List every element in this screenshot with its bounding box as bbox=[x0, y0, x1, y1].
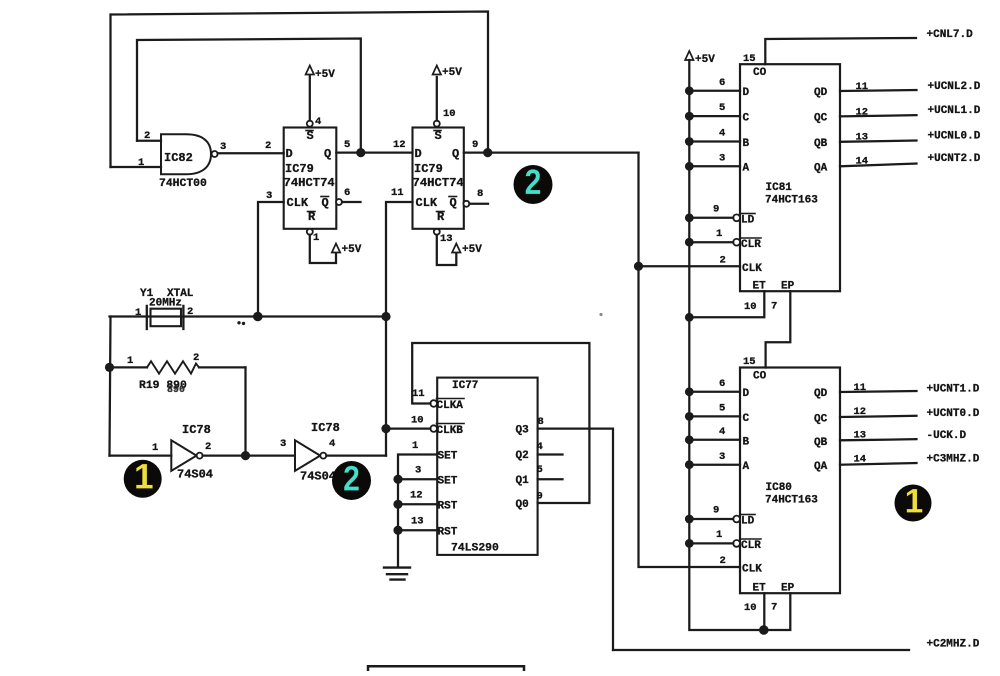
svg-text:3: 3 bbox=[280, 438, 286, 450]
bubble FF1 Qbar bbox=[336, 199, 342, 205]
label +UCNL1.D bbox=[928, 105, 981, 117]
wire IC81 QD output bbox=[840, 90, 917, 91]
svg-text:14: 14 bbox=[856, 156, 869, 168]
svg-text:11: 11 bbox=[391, 187, 404, 199]
svg-text:IC78: IC78 bbox=[182, 423, 211, 437]
svg-text:IC79: IC79 bbox=[285, 162, 314, 176]
pin 15 of IC81 bbox=[743, 53, 756, 65]
svg-text:Q: Q bbox=[324, 147, 331, 161]
label SET lower bbox=[438, 476, 458, 488]
pin 15 of IC80 bbox=[743, 356, 756, 368]
pin 12 of IC81 bbox=[856, 107, 869, 119]
svg-text:QB: QB bbox=[814, 138, 828, 150]
label Y1 bbox=[140, 288, 154, 300]
svg-text:QD: QD bbox=[814, 87, 828, 99]
svg-text:QD: QD bbox=[814, 388, 828, 400]
svg-text:7: 7 bbox=[771, 602, 777, 614]
svg-text:A: A bbox=[743, 461, 750, 473]
wire left bus vertical bbox=[110, 317, 111, 456]
label IC81 bbox=[766, 182, 793, 194]
svg-text:1: 1 bbox=[905, 483, 924, 521]
label 20MHz bbox=[149, 298, 182, 310]
svg-text:2: 2 bbox=[205, 441, 211, 453]
svg-text:10: 10 bbox=[744, 602, 757, 614]
svg-text:74HCT74: 74HCT74 bbox=[413, 176, 464, 190]
svg-text:12: 12 bbox=[410, 490, 423, 502]
svg-text:7: 7 bbox=[771, 301, 777, 313]
node R19 left junction bbox=[105, 363, 114, 372]
svg-text:2: 2 bbox=[144, 130, 150, 142]
svg-text:3: 3 bbox=[719, 153, 725, 165]
svg-text:3: 3 bbox=[266, 190, 272, 202]
svg-text:B: B bbox=[743, 437, 750, 449]
wire IC80 CLR input bbox=[689, 542, 733, 544]
svg-text:+C3MHZ.D: +C3MHZ.D bbox=[927, 454, 980, 466]
svg-text:CLK: CLK bbox=[742, 263, 762, 275]
svg-text:+5V: +5V bbox=[315, 69, 335, 81]
artifact dot bbox=[599, 313, 602, 316]
node bus LD81 bbox=[685, 213, 694, 222]
node RST13 junction bbox=[393, 526, 402, 535]
wire R19 to inverter1 output bbox=[244, 367, 246, 455]
svg-text:4: 4 bbox=[315, 116, 321, 128]
pin 2 of Y1 bbox=[187, 306, 193, 318]
ground bbox=[384, 568, 410, 580]
svg-text:+C2MHZ.D: +C2MHZ.D bbox=[927, 639, 980, 651]
pin 12 of IC77 bbox=[410, 490, 423, 502]
wire IC82 pin1 input stub bbox=[111, 166, 162, 168]
pin 1 of IC82 bbox=[138, 157, 144, 169]
wire C2MHZ output line bbox=[613, 649, 909, 651]
label +C3MHZ.D bbox=[927, 454, 980, 466]
svg-text:IC81: IC81 bbox=[766, 182, 793, 194]
label 74S04 inv1 bbox=[177, 468, 213, 482]
svg-text:1: 1 bbox=[716, 228, 722, 240]
power +5V symbol FF1 bottom bbox=[332, 244, 362, 257]
svg-text:9: 9 bbox=[537, 491, 543, 503]
svg-text:RST: RST bbox=[438, 501, 458, 513]
svg-text:1: 1 bbox=[412, 440, 418, 452]
svg-text:9: 9 bbox=[713, 204, 719, 216]
label D IC81 bbox=[743, 87, 750, 99]
svg-text:5: 5 bbox=[537, 464, 543, 476]
node bus CLR81 bbox=[685, 238, 694, 247]
wire IC77 SET1 to ground bus bbox=[398, 455, 437, 567]
label C IC80 bbox=[743, 413, 750, 425]
pin 7 of IC81 bbox=[771, 301, 777, 313]
crystal Y1 20MHz bbox=[147, 306, 184, 329]
label Q0 bbox=[516, 499, 529, 511]
pin 1 of Y1 bbox=[135, 307, 141, 319]
svg-text:CLKB: CLKB bbox=[437, 425, 464, 437]
svg-text:D: D bbox=[743, 87, 750, 99]
bubble FF2 Qbar bbox=[463, 201, 469, 207]
wire IC80 QC output bbox=[840, 416, 917, 417]
svg-text:12: 12 bbox=[856, 107, 869, 119]
wire IC81 CLK bbox=[639, 265, 741, 267]
pin 2 of IC80 bbox=[720, 555, 726, 567]
pin 3 of inv2 bbox=[280, 438, 286, 450]
label 74HCT163 IC80 bbox=[765, 495, 818, 507]
svg-text:A: A bbox=[743, 163, 750, 175]
pin 1 of IC81 bbox=[716, 228, 722, 240]
wire FF2 Q to counters CLK vertical bbox=[639, 153, 741, 567]
svg-text:13: 13 bbox=[854, 430, 867, 442]
label QD IC80 bbox=[814, 388, 828, 400]
artifact dots bbox=[237, 321, 245, 325]
svg-text:74LS290: 74LS290 bbox=[451, 543, 499, 555]
svg-text:+5V: +5V bbox=[342, 244, 362, 256]
node SET3 junction bbox=[393, 475, 402, 484]
pin 13 of IC77 bbox=[411, 516, 424, 528]
pin 12 of IC80 bbox=[854, 406, 867, 418]
label Q3 bbox=[516, 425, 530, 437]
pin 13 of FF2 bbox=[440, 233, 453, 245]
bubble IC77 CLKA bbox=[430, 400, 437, 407]
svg-text:+UCNL1.D: +UCNL1.D bbox=[928, 105, 981, 117]
label ET IC81 bbox=[753, 281, 767, 293]
svg-text:QA: QA bbox=[814, 163, 828, 175]
node crystal-FF1CLK junction bbox=[253, 312, 263, 322]
pin 9 of IC80 bbox=[713, 505, 719, 517]
label R-bar FF2 bbox=[437, 210, 446, 224]
label D FF1 bbox=[286, 147, 293, 161]
pin 1 of IC77 bbox=[412, 440, 418, 452]
svg-text:+5V: +5V bbox=[442, 67, 462, 79]
svg-text:QC: QC bbox=[814, 113, 828, 125]
svg-text:D: D bbox=[743, 388, 750, 400]
label IC78 inv2 bbox=[311, 421, 340, 435]
svg-text:4: 4 bbox=[719, 426, 725, 438]
label CLR IC80 bbox=[741, 539, 761, 552]
svg-text:EP: EP bbox=[781, 281, 795, 293]
svg-text:+UCNT1.D: +UCNT1.D bbox=[927, 384, 980, 396]
label CLK FF2 bbox=[416, 196, 438, 210]
label 74HCT00 bbox=[159, 178, 207, 190]
node crystal-FF2CLK junction bbox=[381, 312, 390, 321]
svg-text:1: 1 bbox=[135, 307, 141, 319]
power +5V symbol FF1 top bbox=[306, 66, 336, 82]
pin 14 of IC80 bbox=[854, 454, 867, 466]
pin 13 of IC81 bbox=[856, 132, 869, 144]
flip-flop IC79b 74HCT74 body bbox=[413, 128, 464, 229]
bubble FF2 set pin top bbox=[434, 121, 440, 127]
node inverter1 output junction bbox=[241, 451, 250, 460]
wire FF2 Qbar stub bbox=[469, 203, 488, 205]
label R19 overprint bbox=[167, 385, 185, 396]
pin 3 of IC77 bbox=[415, 465, 421, 477]
svg-text:LD: LD bbox=[741, 516, 755, 528]
resistor R19 bbox=[110, 361, 246, 373]
wire IC81 EP to IC80 CO bbox=[766, 291, 791, 367]
node ET-EP tie junction bbox=[759, 625, 769, 635]
svg-text:+UCNT2.D: +UCNT2.D bbox=[928, 153, 981, 165]
callout circle 2 middle bbox=[514, 162, 553, 204]
svg-text:IC80: IC80 bbox=[766, 482, 792, 494]
node bus B81 bbox=[685, 137, 694, 146]
wire IC77 Q1 stub bbox=[538, 478, 563, 480]
label +UCNL0.D bbox=[928, 131, 981, 143]
bubble IC81 LD bbox=[733, 214, 740, 221]
label +UCNT0.D bbox=[927, 408, 980, 420]
power +5V symbol bus top bbox=[685, 51, 715, 66]
svg-text:1: 1 bbox=[716, 529, 722, 541]
svg-text:QC: QC bbox=[814, 414, 828, 426]
wire FF1 Qbar stub bbox=[342, 201, 361, 203]
node bus A80 bbox=[685, 460, 694, 469]
label ET IC80 bbox=[753, 583, 767, 595]
pin 5 of FF1 bbox=[344, 139, 350, 151]
label EP IC80 bbox=[781, 583, 795, 595]
label R19 value bbox=[139, 380, 187, 392]
pin 14 of IC81 bbox=[856, 156, 869, 168]
pin 10 of IC81 bbox=[744, 301, 757, 313]
svg-text:13: 13 bbox=[411, 516, 424, 528]
pin 6 of FF1 bbox=[344, 187, 350, 199]
label IC82 bbox=[164, 151, 193, 165]
label IC78 inv1 bbox=[182, 423, 211, 437]
wire IC80 QD output bbox=[840, 391, 917, 392]
svg-text:CLK: CLK bbox=[742, 564, 762, 576]
svg-text:6: 6 bbox=[719, 378, 725, 390]
label CLKA bbox=[437, 399, 465, 413]
wire IC80 LD input bbox=[689, 518, 733, 520]
svg-text:74S04: 74S04 bbox=[300, 470, 336, 484]
svg-text:74HCT74: 74HCT74 bbox=[284, 176, 335, 190]
svg-text:SET: SET bbox=[438, 476, 458, 488]
svg-text:SET: SET bbox=[438, 451, 458, 463]
counter IC77 74LS290 body bbox=[437, 378, 537, 555]
svg-text:1: 1 bbox=[152, 442, 158, 454]
svg-text:CLR: CLR bbox=[741, 239, 761, 251]
svg-text:Q3: Q3 bbox=[516, 425, 530, 437]
node FF1 Q junction bbox=[356, 148, 365, 157]
svg-text:15: 15 bbox=[743, 356, 756, 368]
node counters CLK junction bbox=[634, 262, 643, 271]
bubble FF1 reset pin bottom bbox=[307, 229, 313, 235]
pin 11 of FF2 bbox=[391, 187, 404, 199]
svg-text:12: 12 bbox=[854, 406, 867, 418]
label CLK IC80 bbox=[742, 564, 762, 576]
svg-text:CLK: CLK bbox=[287, 196, 309, 210]
wire IC77 CLKB input bbox=[386, 427, 430, 429]
node bus D81 bbox=[685, 86, 694, 95]
label LD IC81 bbox=[741, 214, 755, 227]
pin 4 of inv2 bbox=[329, 438, 335, 450]
wire FF2 reset to +5V bbox=[437, 235, 457, 265]
counter IC80 74HCT163 body bbox=[740, 368, 840, 594]
wire IC77 Q2 stub bbox=[538, 453, 563, 455]
svg-text:+UCNL0.D: +UCNL0.D bbox=[928, 131, 981, 143]
label B IC81 bbox=[743, 138, 750, 150]
pin 6 of IC80 bbox=[719, 378, 725, 390]
svg-text:1: 1 bbox=[138, 157, 144, 169]
wire FF2 CLK vertical bbox=[386, 202, 413, 456]
label Q FF1 bbox=[324, 147, 331, 161]
label QC IC80 bbox=[814, 414, 828, 426]
svg-text:10: 10 bbox=[443, 108, 456, 120]
label IC79 FF2 bbox=[414, 162, 443, 176]
svg-text:1: 1 bbox=[134, 457, 154, 497]
label IC80 bbox=[766, 482, 792, 494]
label 74LS290 bbox=[451, 543, 499, 555]
node bus C80 bbox=[685, 412, 694, 421]
bubble FF1 set pin top bbox=[307, 121, 313, 127]
svg-text:QB: QB bbox=[814, 437, 828, 449]
wire crystal left to inverter input bus bbox=[147, 315, 184, 317]
wire IC77 RST13 bbox=[398, 529, 437, 531]
svg-text:D: D bbox=[415, 147, 422, 161]
label CLK IC81 bbox=[742, 263, 762, 275]
pin 11 of IC81 bbox=[856, 81, 869, 93]
svg-text:5: 5 bbox=[719, 102, 725, 114]
node bus B80 bbox=[685, 435, 694, 444]
wire FF1 set pin to +5V bbox=[309, 75, 311, 121]
label 74HCT74 FF1 bbox=[284, 176, 335, 190]
power +5V symbol FF2 top bbox=[433, 66, 463, 80]
svg-text:IC82: IC82 bbox=[164, 151, 193, 165]
callout circle 2 left bbox=[332, 459, 371, 501]
svg-text:IC77: IC77 bbox=[452, 380, 478, 392]
svg-text:4: 4 bbox=[329, 438, 335, 450]
svg-text:20MHz: 20MHz bbox=[149, 298, 182, 310]
label SET upper bbox=[438, 451, 458, 463]
svg-text:QA: QA bbox=[814, 461, 828, 473]
svg-text:2: 2 bbox=[193, 352, 199, 364]
svg-text:+5V: +5V bbox=[462, 244, 482, 256]
svg-text:890: 890 bbox=[167, 385, 185, 396]
pin 9 of IC77 bbox=[537, 491, 543, 503]
label Q2 bbox=[516, 450, 529, 462]
svg-text:11: 11 bbox=[854, 382, 867, 394]
pin 12 of FF2 bbox=[393, 139, 406, 151]
svg-text:Q2: Q2 bbox=[516, 450, 529, 462]
node RST12 junction bbox=[393, 500, 402, 509]
pin 10 of FF2 bbox=[443, 108, 456, 120]
label B IC80 bbox=[743, 437, 750, 449]
label EP IC81 bbox=[781, 281, 795, 293]
label D FF2 bbox=[415, 147, 422, 161]
node CLKB tap junction bbox=[381, 424, 390, 433]
wire IC80 QA output bbox=[840, 463, 917, 465]
pin 11 of IC80 bbox=[854, 382, 867, 394]
label IC79 FF1 bbox=[285, 162, 314, 176]
pin 9 of FF2 bbox=[472, 139, 478, 151]
svg-text:3: 3 bbox=[719, 451, 725, 463]
pin 3 of FF1 bbox=[266, 190, 272, 202]
label QB IC81 bbox=[814, 138, 828, 150]
svg-text:10: 10 bbox=[411, 415, 424, 427]
svg-text:+CNL7.D: +CNL7.D bbox=[927, 29, 974, 41]
pin 2 of R19 bbox=[193, 352, 199, 364]
wire IC81 QB output bbox=[840, 141, 917, 142]
svg-text:D: D bbox=[286, 147, 293, 161]
svg-text:Q0: Q0 bbox=[516, 499, 529, 511]
svg-text:+UCNL2.D: +UCNL2.D bbox=[928, 81, 981, 93]
title block top edge bbox=[368, 666, 524, 671]
wire corner crystal-left bbox=[110, 315, 147, 317]
wire IC77 SET3 bbox=[398, 478, 437, 480]
pin 4 of IC77 bbox=[537, 441, 543, 453]
label Q1 bbox=[516, 475, 530, 487]
svg-text:1: 1 bbox=[127, 355, 133, 367]
node bus D80 bbox=[685, 387, 694, 396]
svg-text:11: 11 bbox=[412, 388, 425, 400]
wire IC81 C input bbox=[689, 115, 740, 117]
svg-text:+UCNT0.D: +UCNT0.D bbox=[927, 408, 980, 420]
svg-text:IC79: IC79 bbox=[414, 162, 443, 176]
pin 6 of IC81 bbox=[719, 77, 725, 89]
svg-text:14: 14 bbox=[854, 454, 867, 466]
label +UCNT1.D bbox=[927, 384, 980, 396]
svg-text:13: 13 bbox=[856, 132, 869, 144]
label QA IC80 bbox=[814, 461, 828, 473]
inverter IC78b 74S04 bbox=[295, 440, 326, 471]
svg-text:3: 3 bbox=[415, 465, 421, 477]
label +C2MHZ.D bbox=[927, 639, 980, 651]
label CLR IC81 bbox=[741, 238, 761, 251]
callout circle 1 left bbox=[124, 457, 162, 498]
svg-text:4: 4 bbox=[719, 128, 725, 140]
svg-text:Q: Q bbox=[450, 196, 457, 210]
label Qbar FF1 bbox=[321, 196, 329, 210]
wire FF1 Q output to FF2 D bbox=[336, 151, 412, 153]
wire inverter2 output bbox=[326, 454, 386, 456]
label XTAL bbox=[167, 288, 194, 300]
label S-bar FF1 bbox=[306, 129, 314, 143]
pin 1 of FF1 bbox=[313, 232, 319, 244]
pin 2 of IC81 bbox=[720, 255, 726, 267]
wire IC81 QC output bbox=[840, 115, 917, 116]
pin 13 of IC80 bbox=[854, 430, 867, 442]
bubble FF2 reset pin bottom bbox=[434, 229, 440, 235]
svg-text:74HCT163: 74HCT163 bbox=[765, 495, 818, 507]
wire +5V pull-up bus bbox=[689, 60, 764, 630]
pin 4 of IC80 bbox=[719, 426, 725, 438]
svg-text:CLKA: CLKA bbox=[437, 400, 464, 412]
label RST lower bbox=[438, 527, 458, 539]
wire IC80 EP to tie bbox=[764, 593, 791, 630]
wire inner feedback loop: FF1 pin5 Q to NAND IC82 pin2 bbox=[137, 39, 361, 153]
callout circle 1 right bbox=[895, 483, 932, 522]
wire IC80 ET to tie bbox=[763, 593, 765, 630]
svg-text:15: 15 bbox=[743, 53, 756, 65]
pin 4 of FF1 bbox=[315, 116, 321, 128]
svg-text:5: 5 bbox=[344, 139, 350, 151]
label +UCNT2.D bbox=[928, 153, 981, 165]
svg-text:2: 2 bbox=[720, 555, 726, 567]
wire FF1 reset to +5V bbox=[310, 235, 336, 263]
label 74HCT163 IC81 bbox=[765, 195, 818, 207]
label CO IC80 bbox=[753, 371, 767, 383]
wire IC81 B input bbox=[689, 140, 740, 142]
inverter IC78a 74S04 bbox=[171, 440, 202, 471]
pin 5 of IC81 bbox=[719, 102, 725, 114]
wire IC80 B input bbox=[689, 439, 740, 441]
label Qbar FF2 bbox=[449, 196, 457, 210]
svg-text:3: 3 bbox=[220, 141, 226, 153]
pin 1 of R19 bbox=[127, 355, 133, 367]
svg-text:4: 4 bbox=[537, 441, 543, 453]
svg-text:Q1: Q1 bbox=[516, 475, 530, 487]
pin 7 of IC80 bbox=[771, 602, 777, 614]
svg-text:CO: CO bbox=[753, 67, 767, 79]
wire IC81 CO output to CNL7 bbox=[765, 38, 916, 64]
power +5V symbol FF2 bottom bbox=[452, 244, 482, 257]
nand gate IC82 74HCT00 bbox=[161, 134, 218, 174]
svg-text:74S04: 74S04 bbox=[177, 468, 213, 482]
wire crystal to clock node bbox=[183, 315, 386, 317]
